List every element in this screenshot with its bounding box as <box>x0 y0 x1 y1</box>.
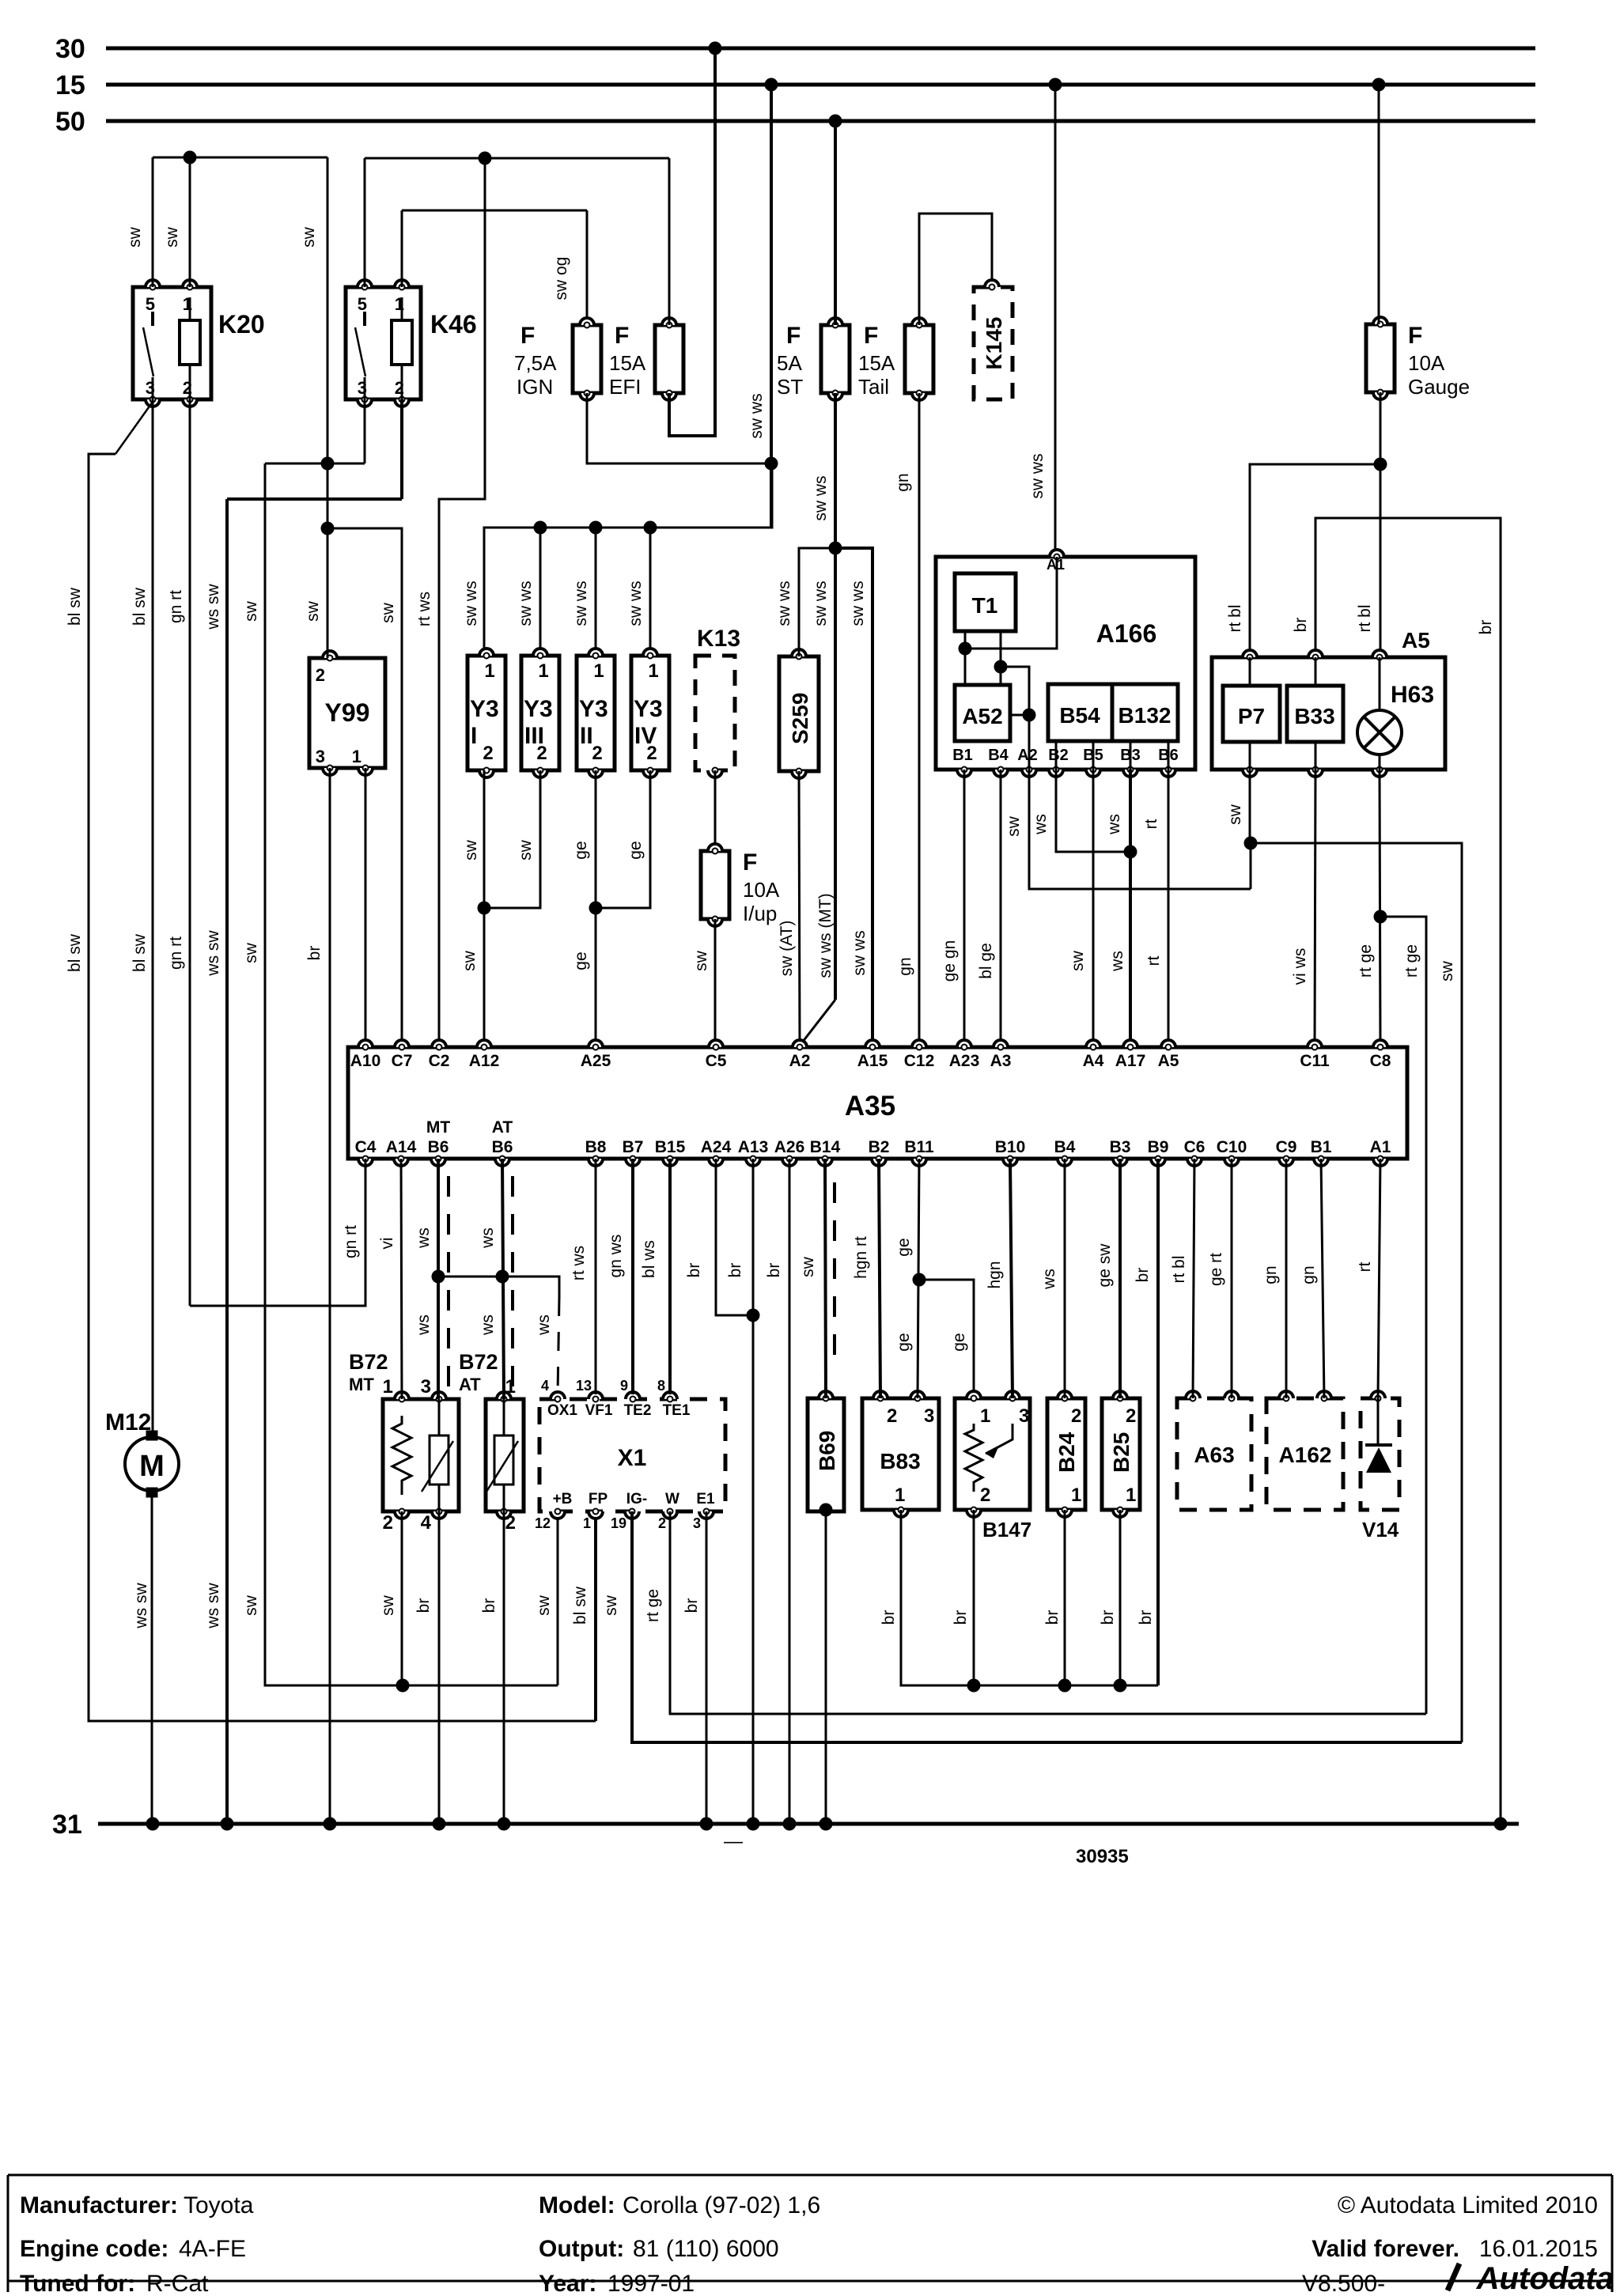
junction bus31 x=555 <box>433 1818 446 1831</box>
svg-text:R-Cat: R-Cat <box>146 2271 209 2292</box>
svg-text:VF1: VF1 <box>585 1402 613 1419</box>
svg-text:br: br <box>1099 1610 1117 1625</box>
wire sw ws label Y3 I <box>462 581 480 626</box>
footer table <box>8 2175 1614 2296</box>
svg-text:I/up: I/up <box>743 902 777 925</box>
label minus <box>724 1831 743 1852</box>
svg-text:1997-01: 1997-01 <box>607 2271 695 2292</box>
svg-text:T1: T1 <box>972 593 998 618</box>
wire x613 down jog to C2 column <box>439 158 485 1047</box>
svg-text:gn rt: gn rt <box>342 1225 360 1258</box>
svg-text:1: 1 <box>1126 1485 1136 1506</box>
svg-text:ge sw: ge sw <box>1096 1243 1114 1288</box>
svg-text:+B: +B <box>553 1491 573 1507</box>
wire sw ws label A1 wire <box>1028 453 1047 498</box>
svg-text:F: F <box>864 323 878 349</box>
wire sw ws label x975 <box>748 393 766 438</box>
wire sw ws label Y3 II <box>572 581 590 626</box>
wire C10 to A63 <box>1231 1159 1233 1398</box>
wire bl ge label <box>977 943 995 979</box>
svg-text:br: br <box>726 1263 744 1278</box>
svg-text:gn: gn <box>1300 1265 1318 1284</box>
wire br label right column <box>1477 620 1495 635</box>
wire B4 to B24 <box>1064 1159 1066 1398</box>
wire T1 left pin to A52 <box>964 631 967 685</box>
svg-text:5: 5 <box>358 294 367 314</box>
wire fuse Iup to C5 <box>714 919 717 1047</box>
sensor B54 <box>1048 684 1112 741</box>
wire B8 to X1 pin13 <box>595 1159 597 1394</box>
svg-text:C7: C7 <box>392 1052 413 1070</box>
wire sw ws label S259 <box>775 581 793 626</box>
sensor B132 <box>1112 684 1178 741</box>
fuse F 15A Tail <box>858 318 933 400</box>
svg-text:ws: ws <box>1108 951 1126 972</box>
wire ST node to A15 column <box>835 548 872 1047</box>
svg-text:C12: C12 <box>904 1052 935 1070</box>
svg-text:1: 1 <box>538 660 548 682</box>
wire K20 pin3 to M12 <box>152 399 154 1433</box>
sensor T1 <box>955 573 1016 631</box>
wire EFI fuse top stub <box>668 158 671 325</box>
wire Y3 II top <box>595 528 597 656</box>
svg-text:br: br <box>1292 618 1310 633</box>
svg-text:rt: rt <box>1356 1261 1374 1272</box>
svg-text:sw: sw <box>242 1594 260 1616</box>
svg-text:gn: gn <box>1262 1265 1280 1284</box>
wire ws sw label low <box>204 1583 222 1629</box>
wire MT diagonal to A2 <box>800 1000 835 1046</box>
wire S259 bottom to A2 <box>799 771 800 1047</box>
wire P7 inside <box>1249 657 1251 770</box>
wire hgn rt label <box>852 1236 870 1279</box>
wire sw label +B <box>535 1594 553 1616</box>
net 50 starter bus label <box>55 107 85 137</box>
engine control unit A35 <box>348 1040 1407 1166</box>
svg-text:3: 3 <box>1019 1405 1029 1427</box>
wire ws label pin4 <box>535 1314 553 1336</box>
label 30935 <box>1076 1846 1129 1867</box>
svg-text:15A: 15A <box>609 351 646 375</box>
svg-text:Model:: Model: <box>539 2192 615 2218</box>
svg-text:Toyota: Toyota <box>184 2192 254 2218</box>
unit A63 <box>1177 1391 1251 1510</box>
wire stub to C7 <box>327 528 402 1047</box>
svg-text:A12: A12 <box>469 1052 500 1070</box>
svg-text:50: 50 <box>55 107 85 137</box>
svg-text:2: 2 <box>592 743 602 764</box>
wire bl sw label x194 mid <box>131 933 149 972</box>
wire Y3 IV bottom jog <box>596 770 650 908</box>
svg-text:ws sw: ws sw <box>204 584 222 630</box>
svg-text:sw: sw <box>242 942 260 963</box>
wire B6 AT dashed sibling <box>511 1176 514 1392</box>
wire bus 31 <box>98 1822 1519 1826</box>
wire ws label AT lower <box>479 1314 497 1336</box>
wire ge label B147 pin1 <box>950 1333 968 1351</box>
svg-text:gn: gn <box>896 957 914 975</box>
wire Y3 I bottom to A12 <box>483 770 486 1047</box>
wire B2 to B83 pin2 <box>879 1159 880 1398</box>
svg-text:ge gn: ge gn <box>941 940 959 982</box>
svg-text:A23: A23 <box>949 1052 980 1070</box>
junction rail B147 <box>967 1679 981 1693</box>
wire Y3 III bottom jog <box>484 770 540 908</box>
sensor B83 <box>862 1391 939 1517</box>
svg-text:ws sw: ws sw <box>204 1583 222 1629</box>
wire injector rail <box>484 463 772 656</box>
svg-text:30: 30 <box>55 34 85 64</box>
injector Y3 IV <box>631 649 669 777</box>
wire +B riser <box>557 1511 559 1685</box>
svg-text:B1: B1 <box>952 747 973 764</box>
wire H63 top wire <box>1380 464 1382 657</box>
svg-text:H63: H63 <box>1391 682 1434 708</box>
junction rail B25 <box>1114 1679 1127 1693</box>
wire gn label lower <box>896 957 914 975</box>
wire C4 jog to gn rt column <box>190 1159 365 1306</box>
svg-text:10A: 10A <box>1408 351 1445 375</box>
svg-text:10A: 10A <box>743 878 780 902</box>
wire Y99 pin1 to A10 <box>365 768 367 1047</box>
svg-text:Year:: Year: <box>539 2271 596 2292</box>
wire Y3 IV top <box>649 528 652 656</box>
junction rail B24 <box>1058 1679 1072 1693</box>
svg-text:19: 19 <box>611 1515 626 1531</box>
svg-text:B8: B8 <box>585 1138 607 1156</box>
wire B72MT pin4 to bus31 <box>438 1511 441 1824</box>
wire rt ge label column <box>1402 944 1421 978</box>
svg-text:ws: ws <box>1031 814 1050 835</box>
svg-text:2: 2 <box>980 1485 990 1506</box>
svg-text:TE2: TE2 <box>624 1402 652 1419</box>
svg-text:1: 1 <box>648 660 658 682</box>
svg-text:br: br <box>1137 1610 1155 1625</box>
wire T1 node to A2 pin <box>1001 667 1029 770</box>
wire sw label x335 low <box>242 1594 260 1616</box>
wire ws label A2 <box>1031 814 1050 835</box>
svg-text:gn ws: gn ws <box>607 1235 625 1278</box>
svg-text:C10: C10 <box>1217 1138 1247 1156</box>
instrument cluster A5 <box>1212 628 1445 777</box>
svg-text:ge: ge <box>895 1333 913 1351</box>
wire br label B9 low <box>1137 1610 1155 1625</box>
svg-text:sw: sw <box>163 226 181 248</box>
wire sw label IG- <box>602 1594 620 1616</box>
svg-text:vi: vi <box>378 1237 396 1249</box>
wire bus30 to EFI fuse bottom <box>669 48 715 436</box>
svg-text:sw: sw <box>460 950 479 971</box>
wire Y3 II bottom to A25 <box>595 770 597 1047</box>
svg-text:bl sw: bl sw <box>66 587 84 626</box>
wire C9 to A162 <box>1285 1159 1288 1398</box>
svg-text:V14: V14 <box>1362 1518 1399 1541</box>
svg-text:B33: B33 <box>1294 704 1334 728</box>
svg-text:2: 2 <box>887 1405 897 1427</box>
junction H63 node <box>1374 910 1387 924</box>
wire Tail fuse bottom to C12 <box>918 393 921 1047</box>
junction bus31 x=637 <box>498 1818 511 1831</box>
junction x414 y668 <box>321 522 335 535</box>
sensor B25 <box>1102 1391 1140 1517</box>
junction x613 on y200 <box>479 152 492 165</box>
svg-text:A2: A2 <box>1017 747 1038 764</box>
wire B6 MT dashed sibling <box>447 1176 450 1392</box>
wire ge gn label <box>941 940 959 982</box>
junction Gauge node <box>1374 458 1387 471</box>
wire A1 to V14 <box>1378 1159 1380 1398</box>
wire B10 to B147 pin3 <box>1010 1159 1012 1398</box>
motor M12 <box>105 1409 179 1497</box>
wire ws label MT upper <box>414 1227 433 1249</box>
wire P7 bottom to sw node <box>1249 770 1251 843</box>
wire br label B72MT pin4 <box>414 1598 433 1613</box>
wire B4 to A3 <box>1000 770 1002 1047</box>
svg-text:ge: ge <box>950 1333 968 1351</box>
junction on bus 30 x=904 <box>709 42 722 55</box>
svg-text:1: 1 <box>895 1485 905 1506</box>
wire node y200 horizontal to EFI fuse <box>365 157 669 160</box>
wire sw label P7 bottom <box>1226 804 1244 825</box>
svg-text:2: 2 <box>316 665 325 685</box>
wire M12 bottom to bus31 <box>151 1497 153 1824</box>
svg-text:Tuned for:: Tuned for: <box>20 2271 135 2292</box>
svg-text:B147: B147 <box>982 1518 1031 1541</box>
wire sw node down to A2 rail <box>1250 843 1252 889</box>
wire gn label B1 <box>1300 1265 1318 1284</box>
wire H63 bottom to C8 <box>1380 770 1380 1047</box>
svg-text:3: 3 <box>421 1376 431 1398</box>
svg-text:MT: MT <box>426 1118 450 1137</box>
svg-text:F: F <box>1408 323 1422 349</box>
wire B24 pin1 down <box>1064 1510 1066 1685</box>
svg-text:IG-: IG- <box>626 1491 647 1507</box>
wire C6 to A63 <box>1193 1159 1194 1398</box>
wire br label A26 <box>765 1263 783 1278</box>
wire IG- drop <box>632 1511 1462 1742</box>
svg-text:Y3: Y3 <box>579 696 608 722</box>
wire br label B72AT pin2 <box>480 1598 498 1613</box>
svg-text:rt ge: rt ge <box>1357 944 1375 978</box>
svg-text:A25: A25 <box>581 1052 611 1070</box>
wire sw label x335 mid <box>242 942 260 963</box>
svg-text:A13: A13 <box>738 1138 769 1156</box>
wire B54 stub B2 <box>1055 741 1058 770</box>
svg-text:sw: sw <box>379 1594 397 1616</box>
svg-text:ge rt: ge rt <box>1207 1253 1225 1286</box>
wire H63 branch to rt ge column <box>1380 917 1426 1714</box>
svg-text:2: 2 <box>505 1512 516 1534</box>
wire K20 pin5 to node y199 <box>152 157 154 287</box>
svg-text:gn rt: gn rt <box>167 590 185 623</box>
svg-text:1: 1 <box>484 660 494 682</box>
junction sw node <box>1244 837 1258 850</box>
svg-text:bl sw: bl sw <box>66 933 84 972</box>
wire vi ws label <box>1291 948 1309 985</box>
junction Y3 I/III merge <box>478 902 491 915</box>
wire bus15 column x975 <box>770 85 773 527</box>
svg-text:F: F <box>520 323 535 349</box>
wire B5 to A4 <box>1092 770 1095 1047</box>
svg-text:sw ws: sw ws <box>572 581 590 626</box>
wire sw label B72MT pin2 <box>379 1594 397 1616</box>
svg-text:B14: B14 <box>810 1138 841 1156</box>
wire bus15 to Gauge fuse <box>1378 85 1380 324</box>
wire ws label AT upper <box>479 1227 497 1249</box>
net 31 ground bus label <box>52 1810 82 1840</box>
svg-text:br: br <box>480 1598 498 1613</box>
svg-text:br: br <box>1477 620 1495 635</box>
svg-text:B2: B2 <box>869 1138 890 1156</box>
svg-text:br: br <box>305 946 324 961</box>
wire br label A24 <box>685 1263 703 1278</box>
wire gn label C9 <box>1262 1265 1280 1284</box>
wire A1 pin into box <box>965 557 1057 649</box>
svg-text:15: 15 <box>55 70 85 100</box>
svg-text:ws: ws <box>414 1227 433 1249</box>
control unit A166 <box>936 550 1195 777</box>
svg-text:A166: A166 <box>1096 619 1157 648</box>
svg-text:C2: C2 <box>429 1052 450 1070</box>
wire B54 stub B5 <box>1092 741 1095 770</box>
svg-text:B132: B132 <box>1118 703 1171 728</box>
connector K13 <box>695 626 740 777</box>
svg-text:B25: B25 <box>1109 1432 1134 1473</box>
injector Y3 II <box>577 649 615 777</box>
svg-text:15A: 15A <box>858 351 895 375</box>
svg-text:AT: AT <box>492 1118 513 1137</box>
wire br label B33 <box>1292 618 1310 633</box>
svg-text:sw ws: sw ws <box>812 581 830 626</box>
svg-text:hgn rt: hgn rt <box>852 1236 870 1279</box>
wire IGN fuse bottom jog <box>587 393 771 463</box>
wire A14 to B72MT pin1 <box>401 1159 402 1399</box>
svg-text:2: 2 <box>483 743 493 764</box>
wire br label B83 pin1 <box>880 1610 898 1625</box>
svg-text:rt bl: rt bl <box>1226 604 1244 632</box>
svg-text:vi ws: vi ws <box>1291 948 1309 985</box>
wire sw ws label A15 lower <box>850 930 869 975</box>
wire sw label Y3 III lower <box>517 839 535 861</box>
svg-text:A35: A35 <box>845 1091 895 1122</box>
svg-text:A4: A4 <box>1083 1052 1104 1070</box>
wire ws sw label mid <box>204 930 222 977</box>
svg-text:C8: C8 <box>1370 1052 1391 1070</box>
svg-text:OX1: OX1 <box>547 1402 577 1419</box>
junction bus31 x=287 <box>221 1818 234 1831</box>
svg-text:A26: A26 <box>774 1138 805 1156</box>
relay K46 <box>346 280 477 407</box>
relay K145 <box>974 280 1012 399</box>
svg-text:1: 1 <box>593 660 604 682</box>
svg-text:sw ws: sw ws <box>462 581 480 626</box>
svg-text:ws sw: ws sw <box>132 1583 150 1629</box>
svg-text:bl ge: bl ge <box>977 943 995 979</box>
svg-text:A162: A162 <box>1279 1443 1332 1467</box>
wire A52 side stub <box>1010 714 1029 717</box>
svg-text:sw (AT): sw (AT) <box>778 921 796 977</box>
junction B2/B3 <box>1124 845 1137 859</box>
wire br label B25 pin1 <box>1099 1610 1117 1625</box>
wire B33 top jog to br column <box>1315 518 1501 1824</box>
svg-text:A24: A24 <box>701 1138 732 1156</box>
svg-text:MT: MT <box>349 1375 374 1394</box>
wire Y3 III top <box>539 528 542 656</box>
junction x509 y2131 <box>396 1679 410 1693</box>
wire rt bl label P7 <box>1226 604 1244 632</box>
svg-text:B6: B6 <box>492 1138 513 1156</box>
wire ws label B5 <box>1105 814 1123 835</box>
wire B11 to B83 pin3 <box>918 1159 919 1398</box>
svg-text:1: 1 <box>383 1376 393 1398</box>
svg-text:br: br <box>1043 1610 1062 1625</box>
wire sw node branch right <box>1251 843 1462 1742</box>
net 15 ignition bus label <box>55 70 85 100</box>
svg-text:K13: K13 <box>697 626 740 652</box>
svg-text:sw: sw <box>300 226 318 248</box>
junction B69 bottom <box>819 1504 833 1517</box>
svg-text:A17: A17 <box>1115 1052 1146 1070</box>
svg-text:1: 1 <box>1071 1485 1081 1506</box>
sensor B147 potentiometer <box>955 1391 1031 1541</box>
svg-text:sw: sw <box>535 1594 553 1616</box>
svg-text:rt: rt <box>1145 955 1163 966</box>
wire vertical x414 from y199 <box>327 157 329 462</box>
svg-text:4: 4 <box>421 1512 432 1534</box>
svg-text:Gauge: Gauge <box>1408 375 1470 399</box>
svg-text:EFI: EFI <box>609 375 641 399</box>
wire bl sw label x112 upper <box>66 587 84 626</box>
svg-text:16.01.2015: 16.01.2015 <box>1479 2236 1598 2262</box>
wire bl sw label x194 upper <box>131 587 149 626</box>
wire sw label B14 <box>799 1256 817 1277</box>
wire B1 to A23 <box>963 770 966 1047</box>
wire A2 jog to sw node <box>1029 770 1251 889</box>
wire bus 30 <box>106 47 1535 51</box>
svg-text:A52: A52 <box>962 704 1002 728</box>
svg-text:B7: B7 <box>623 1138 644 1156</box>
wire ws label A17 <box>1108 951 1126 972</box>
junction on bus 15 x=1743 <box>1372 78 1386 92</box>
junction bus31 x=1897 <box>1494 1818 1508 1831</box>
fuse F 7,5A IGN <box>514 318 601 400</box>
svg-text:B3: B3 <box>1110 1138 1131 1156</box>
wire B132 stub B3 <box>1130 741 1132 770</box>
wire B6 MT to B72MT pin3 <box>437 1159 440 1399</box>
svg-text:3: 3 <box>693 1515 701 1531</box>
svg-text:30935: 30935 <box>1076 1846 1129 1867</box>
svg-text:B72: B72 <box>459 1350 498 1374</box>
warning lamp H63 <box>1357 657 1434 770</box>
svg-text:A5: A5 <box>1402 628 1430 652</box>
wire sw label K20 pin5 <box>126 226 144 248</box>
solenoid Y99 <box>309 651 385 775</box>
wire rt bl label C6 <box>1170 1255 1188 1283</box>
wire br label A13 <box>726 1263 744 1278</box>
svg-text:sw: sw <box>602 1594 620 1616</box>
junction bus31 x=998 <box>783 1818 797 1831</box>
svg-text:sw: sw <box>1069 950 1087 971</box>
wire bus50 to ST fuse <box>834 121 837 325</box>
svg-text:B24: B24 <box>1054 1432 1079 1473</box>
wire H2 to ws sw column <box>227 497 402 501</box>
wire Tail fuse jog to K145 <box>919 214 992 325</box>
svg-text:sw: sw <box>1438 960 1456 982</box>
junction T1 left node <box>959 642 972 656</box>
wire B2 jog <box>1056 770 1130 852</box>
wire B6 AT to B72AT pin1 <box>502 1159 504 1399</box>
svg-text:Output:: Output: <box>539 2236 624 2262</box>
